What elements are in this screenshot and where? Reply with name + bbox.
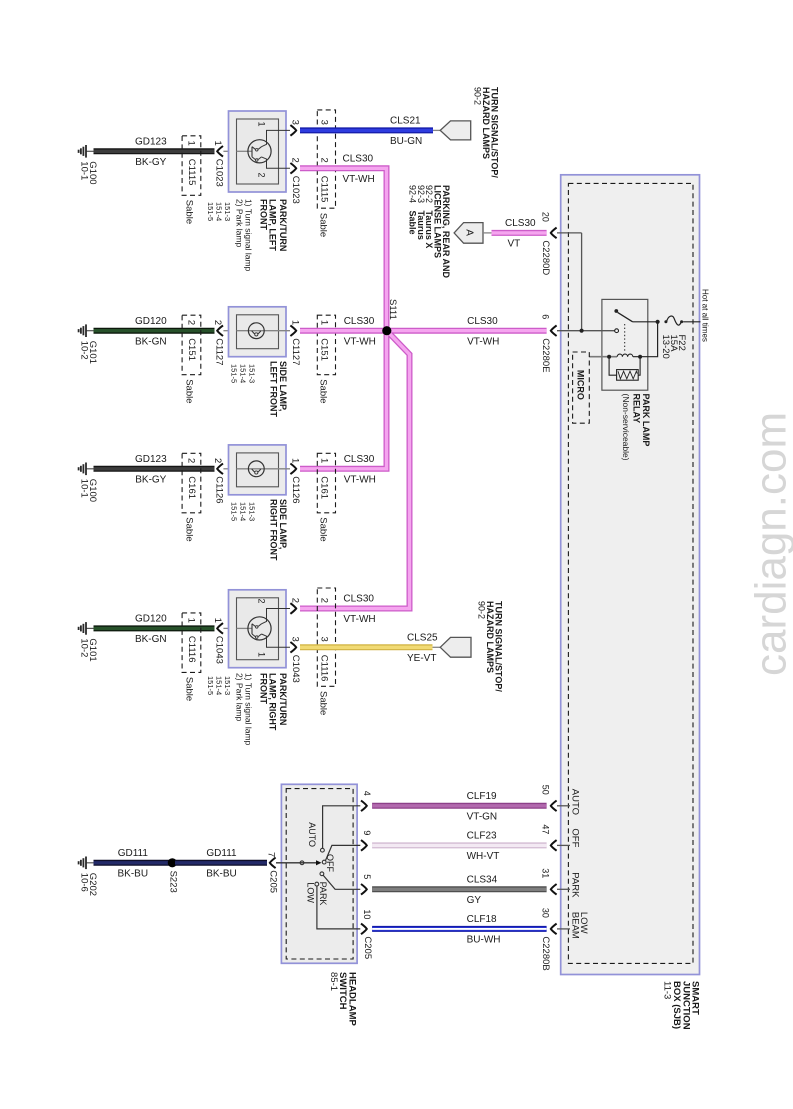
- svg-text:cardiagn.com: cardiagn.com: [747, 412, 793, 676]
- svg-text:30: 30: [541, 908, 551, 918]
- svg-text:FRONT: FRONT: [259, 199, 269, 230]
- svg-text:2: 2: [186, 458, 197, 463]
- svg-text:10-1: 10-1: [79, 161, 90, 180]
- ground G100: [86, 468, 93, 470]
- svg-text:13-20: 13-20: [660, 335, 671, 359]
- svg-text:C205: C205: [267, 870, 278, 893]
- svg-text:C1023: C1023: [214, 159, 225, 187]
- svg-text:CLF19: CLF19: [467, 791, 497, 802]
- switch AUTO contact and link to pin 4: [321, 848, 325, 852]
- inline connector C1116 (right): [317, 588, 335, 686]
- inline connector C1116 (left): [182, 613, 201, 673]
- svg-text:151-4: 151-4: [238, 364, 247, 383]
- svg-text:Sable: Sable: [318, 517, 329, 541]
- connector C2280B pin 30: [551, 924, 557, 935]
- SJB inner dashed boundary: [568, 183, 693, 963]
- svg-text:C1127: C1127: [290, 338, 301, 365]
- svg-text:4: 4: [362, 791, 372, 796]
- svg-text:VT-WH: VT-WH: [344, 474, 376, 485]
- svg-text:151-5: 151-5: [229, 364, 238, 383]
- svg-text:C1115: C1115: [319, 176, 330, 203]
- connector C2280B pin 50: [551, 801, 557, 812]
- svg-text:SIDE LAMP,: SIDE LAMP,: [278, 499, 288, 549]
- svg-text:GD120: GD120: [135, 614, 167, 625]
- svg-text:CLS30: CLS30: [467, 316, 498, 327]
- svg-text:10: 10: [362, 909, 372, 919]
- svg-text:2: 2: [212, 458, 223, 463]
- svg-text:CLF18: CLF18: [467, 914, 497, 925]
- svg-text:92-4 Sable: 92-4 Sable: [408, 185, 418, 235]
- svg-text:Hot at all times: Hot at all times: [701, 289, 710, 342]
- bulb symbol (single filament): [248, 323, 264, 339]
- svg-text:3: 3: [289, 120, 300, 125]
- svg-text:Sable: Sable: [318, 379, 329, 403]
- svg-text:CLS25: CLS25: [407, 633, 438, 644]
- ground G101: [86, 627, 93, 629]
- bulb symbol (single filament): [248, 461, 264, 477]
- svg-text:6: 6: [541, 314, 551, 319]
- connector C1023 pin 1 (component left): [217, 146, 223, 157]
- svg-text:(Non-serviceable): (Non-serviceable): [621, 394, 631, 461]
- svg-text:2: 2: [212, 320, 223, 325]
- svg-text:C1127: C1127: [214, 338, 225, 365]
- lamp PARK/TURN LAMP LEFT FRONT: [229, 111, 287, 192]
- svg-text:BK-GY: BK-GY: [135, 474, 166, 485]
- svg-text:C161: C161: [186, 476, 197, 499]
- svg-text:SIDE LAMP,: SIDE LAMP,: [278, 361, 288, 411]
- svg-text:1: 1: [212, 618, 223, 623]
- svg-text:BU-GN: BU-GN: [390, 136, 422, 147]
- relay coil: [589, 356, 617, 358]
- wire CLS30 VT to SJB: [483, 232, 492, 234]
- svg-text:PARK: PARK: [569, 872, 580, 898]
- ground G101: [86, 330, 93, 332]
- lamp PARK/TURN LAMP RIGHT FRONT: [229, 590, 287, 668]
- connector C205 pin 7: [270, 858, 276, 869]
- svg-text:2: 2: [289, 158, 300, 163]
- svg-text:GD123: GD123: [135, 454, 167, 465]
- svg-text:90-2: 90-2: [473, 87, 483, 105]
- wire to hot at all times: [683, 321, 700, 323]
- inline connector C151 (left): [182, 315, 201, 375]
- svg-text:47: 47: [541, 824, 551, 834]
- svg-text:10-2: 10-2: [79, 638, 90, 657]
- svg-text:LEFT FRONT: LEFT FRONT: [269, 361, 279, 417]
- wire GD111 BK-BU (S223 to switch): [175, 860, 267, 866]
- wire GD120 BK-GN (ground side): [94, 328, 215, 334]
- smart junction box (SJB) outline: [561, 175, 700, 975]
- bulb symbol (dual filament): [237, 150, 253, 152]
- connector C2280B pin 31: [551, 884, 557, 895]
- wire CLS25 YE-VT to turn signal lamps: [300, 644, 433, 650]
- svg-text:3: 3: [319, 637, 330, 642]
- svg-text:1: 1: [212, 141, 223, 146]
- ground G100: [86, 150, 93, 152]
- wire GD123 BK-GY (ground side): [94, 148, 215, 154]
- svg-text:CLS30: CLS30: [343, 594, 374, 605]
- svg-text:VT-WH: VT-WH: [467, 336, 499, 347]
- svg-text:1: 1: [289, 458, 300, 463]
- connector C1126 pin 2 (component left): [217, 464, 223, 475]
- svg-text:3: 3: [289, 637, 300, 642]
- svg-text:CLS30: CLS30: [505, 218, 536, 229]
- svg-text:1: 1: [289, 320, 300, 325]
- relay suppression resistor: [609, 358, 617, 375]
- wire GD111 BK-BU (ground to S223): [94, 860, 171, 866]
- svg-text:Sable: Sable: [318, 691, 329, 715]
- svg-text:2: 2: [257, 173, 267, 178]
- connector C2280D pin 20: [551, 228, 557, 239]
- svg-text:1: 1: [257, 652, 267, 657]
- svg-text:VT: VT: [508, 239, 521, 250]
- relay common contact: [615, 329, 619, 333]
- svg-text:VT-WH: VT-WH: [344, 336, 376, 347]
- svg-text:90-2: 90-2: [476, 601, 486, 619]
- junction (SJB internal): [580, 329, 584, 333]
- connector C1043 pin 2 (right top): [290, 603, 296, 614]
- svg-text:Sable: Sable: [184, 200, 195, 224]
- svg-text:AUTO: AUTO: [307, 822, 317, 847]
- wire GD120 BK-GN (ground side): [94, 625, 215, 631]
- svg-text:2: 2: [319, 158, 330, 163]
- svg-text:CLS30: CLS30: [343, 154, 374, 165]
- svg-text:BK-BU: BK-BU: [206, 868, 237, 879]
- wire CLF18 BU-WH: [372, 926, 546, 932]
- svg-text:AUTO: AUTO: [569, 789, 580, 815]
- svg-text:C2280E: C2280E: [540, 338, 551, 372]
- svg-text:2: 2: [186, 320, 197, 325]
- connector C1127 pin 2 (component left): [217, 325, 223, 336]
- svg-text:151-5: 151-5: [206, 676, 215, 695]
- svg-text:MICRO: MICRO: [576, 370, 586, 400]
- wire CLS21 BU-GN to turn signal lamps: [300, 127, 433, 133]
- svg-text:151-4: 151-4: [238, 502, 247, 521]
- svg-text:20: 20: [541, 212, 551, 222]
- MICRO dashed box: [573, 352, 590, 423]
- svg-text:10-1: 10-1: [79, 479, 90, 498]
- connector C205 pin 10: [361, 924, 367, 935]
- svg-text:1: 1: [319, 320, 330, 325]
- junction dot at relay feed: [656, 320, 660, 324]
- svg-text:10-2: 10-2: [79, 341, 90, 360]
- svg-text:C2280D: C2280D: [540, 240, 551, 275]
- svg-text:LOW: LOW: [305, 882, 315, 903]
- svg-text:11-3: 11-3: [662, 981, 673, 999]
- svg-text:YE-VT: YE-VT: [407, 653, 436, 664]
- connector C1023 pin 3 (right top): [290, 125, 296, 136]
- svg-text:BK-GY: BK-GY: [135, 157, 166, 168]
- svg-text:Sable: Sable: [318, 213, 329, 237]
- svg-text:GD120: GD120: [135, 316, 167, 327]
- svg-text:OFF: OFF: [325, 854, 335, 872]
- inline connector C1115 (right): [317, 110, 335, 208]
- svg-text:7: 7: [266, 852, 277, 857]
- connector C2280B pin 47: [551, 840, 557, 851]
- svg-text:GD111: GD111: [118, 848, 149, 859]
- svg-text:CLS34: CLS34: [467, 875, 498, 886]
- svg-text:Sable: Sable: [184, 379, 195, 403]
- svg-text:31: 31: [541, 868, 551, 878]
- svg-text:9: 9: [362, 830, 372, 835]
- wire (SJB internal) from pin 20 to relay feed: [557, 232, 582, 234]
- connector C205 pin 5: [361, 884, 367, 895]
- svg-text:A: A: [463, 229, 474, 236]
- svg-text:GD111: GD111: [206, 848, 237, 859]
- svg-text:10-6: 10-6: [79, 873, 90, 892]
- svg-text:2) Park lamp: 2) Park lamp: [235, 673, 245, 721]
- relay actuation dotted link: [624, 324, 626, 353]
- svg-text:Sable: Sable: [184, 677, 195, 701]
- svg-text:C1116: C1116: [186, 636, 197, 663]
- svg-text:151-3: 151-3: [247, 364, 256, 383]
- switch PARK contact and link to pin 5: [320, 872, 324, 876]
- svg-text:CLF23: CLF23: [467, 831, 497, 842]
- wire CLS34 GY: [372, 886, 546, 892]
- svg-text:1: 1: [257, 122, 267, 127]
- svg-text:151-5: 151-5: [206, 202, 215, 221]
- off-page arrow A: parking, rear and license lamps: [454, 223, 483, 244]
- switch common feed: [276, 862, 318, 864]
- svg-text:OFF: OFF: [569, 828, 580, 847]
- svg-text:PARK: PARK: [318, 882, 328, 906]
- connector C205 pin 9: [361, 840, 367, 851]
- svg-text:BEAM: BEAM: [570, 912, 581, 939]
- headlamp switch box: [281, 784, 357, 963]
- svg-text:CLS30: CLS30: [344, 454, 375, 465]
- bulb symbol (dual filament): [237, 627, 253, 629]
- svg-text:1: 1: [186, 618, 197, 623]
- svg-text:50: 50: [541, 785, 551, 795]
- inline connector C151 (right): [317, 315, 335, 375]
- svg-text:GY: GY: [467, 895, 482, 906]
- splice S223: [168, 858, 177, 867]
- svg-text:151-3: 151-3: [247, 502, 256, 521]
- svg-text:RIGHT FRONT: RIGHT FRONT: [269, 499, 279, 561]
- svg-text:S223: S223: [168, 871, 179, 893]
- connector C1023 pin 2 (right bottom): [290, 163, 296, 174]
- svg-text:C1043: C1043: [214, 636, 225, 664]
- svg-text:VT-GN: VT-GN: [467, 811, 498, 822]
- svg-text:C1115: C1115: [186, 159, 197, 186]
- svg-text:C151: C151: [186, 338, 197, 361]
- svg-text:2: 2: [319, 598, 330, 603]
- connector C1043 pin 3 (right bottom): [290, 642, 296, 653]
- connector C2280E pin 6: [551, 325, 557, 336]
- inline connector C1115 (left): [182, 136, 201, 196]
- off-page arrow: turn signal/stop/hazard lamps: [433, 129, 440, 131]
- relay switched contact and blade: [614, 309, 618, 313]
- switch LOW contact and link to pin 10: [315, 882, 319, 886]
- svg-text:C1043: C1043: [290, 655, 301, 683]
- wire network CLS30 VT-WH (all segments): [300, 168, 387, 330]
- svg-text:C161: C161: [319, 476, 330, 499]
- svg-text:C1116: C1116: [319, 655, 330, 682]
- svg-text:GD123: GD123: [135, 137, 167, 148]
- svg-text:C2280B: C2280B: [540, 936, 551, 970]
- park lamp relay box: [602, 299, 648, 390]
- svg-text:2) Park lamp: 2) Park lamp: [235, 199, 245, 247]
- svg-text:1: 1: [319, 458, 330, 463]
- svg-text:Sable: Sable: [184, 517, 195, 541]
- svg-text:FRONT: FRONT: [259, 673, 269, 704]
- svg-text:PARK/TURN: PARK/TURN: [278, 199, 288, 251]
- svg-text:C1126: C1126: [214, 476, 225, 503]
- lamp SIDE LAMP LEFT FRONT: [229, 307, 287, 357]
- svg-text:151-3: 151-3: [223, 202, 232, 221]
- svg-text:VT-WH: VT-WH: [343, 174, 375, 185]
- svg-text:BK-GN: BK-GN: [135, 336, 167, 347]
- svg-text:CLS21: CLS21: [390, 116, 421, 127]
- inline connector C161 (right): [317, 453, 335, 513]
- svg-text:2: 2: [289, 598, 300, 603]
- svg-text:WH-VT: WH-VT: [467, 851, 500, 862]
- wire GD123 BK-GY (ground side): [94, 466, 215, 472]
- wire CLF23 WH-VT: [372, 842, 546, 848]
- connector C205 pin 4: [361, 801, 367, 812]
- svg-text:C151: C151: [319, 338, 330, 361]
- svg-text:BU-WH: BU-WH: [467, 935, 501, 946]
- svg-text:1: 1: [186, 141, 197, 146]
- svg-text:VT-WH: VT-WH: [343, 614, 375, 625]
- ground G202: [86, 862, 93, 864]
- inline connector C161 (left): [182, 453, 201, 513]
- off-page arrow: turn signal/stop/hazard lamps (right): [433, 646, 441, 648]
- connector C1043 pin 1 (component left): [217, 623, 223, 634]
- wire CLF19 VT-GN: [372, 803, 546, 809]
- svg-text:151-5: 151-5: [229, 502, 238, 521]
- svg-text:5: 5: [362, 874, 372, 879]
- svg-text:C205: C205: [362, 936, 373, 959]
- svg-text:BK-BU: BK-BU: [118, 868, 149, 879]
- svg-text:C1023: C1023: [290, 176, 301, 204]
- svg-text:PARK/TURN: PARK/TURN: [278, 673, 288, 725]
- svg-text:2: 2: [257, 599, 267, 604]
- svg-text:CLS30: CLS30: [344, 316, 375, 327]
- svg-text:RELAY: RELAY: [632, 394, 642, 424]
- lamp SIDE LAMP RIGHT FRONT: [229, 445, 287, 495]
- svg-text:3: 3: [319, 120, 330, 125]
- svg-text:BK-GN: BK-GN: [135, 634, 167, 645]
- splice S111: [382, 326, 391, 335]
- svg-text:C1126: C1126: [290, 476, 301, 503]
- svg-text:85-1: 85-1: [328, 972, 339, 991]
- svg-text:S111: S111: [387, 299, 398, 320]
- fuse F22 15A: [667, 316, 682, 325]
- svg-text:151-3: 151-3: [223, 676, 232, 695]
- switch OFF contact and link to pin 9: [322, 860, 326, 864]
